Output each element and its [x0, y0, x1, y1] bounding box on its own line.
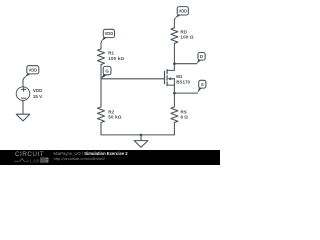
ground (bottom) [134, 141, 148, 148]
plus sign [21, 88, 25, 91]
url text [54, 157, 106, 161]
ground (left) [16, 114, 30, 121]
node D junction [173, 62, 176, 65]
wire gate (node G to M1) [101, 78, 164, 80]
svg-text:BS170: BS170 [176, 80, 190, 85]
svg-text:100 kΩ: 100 kΩ [108, 56, 124, 61]
wire flag to R1 [100, 41, 103, 49]
wire R2 to bottom rail [101, 123, 174, 135]
transistor M1 source stub [167, 84, 174, 86]
resistor RS [171, 107, 178, 123]
transistor M1 body/source vertical [173, 79, 175, 107]
voltage source V1 circle [16, 87, 30, 101]
node S junction [173, 92, 176, 95]
footer bar [0, 150, 220, 165]
title text [54, 152, 128, 157]
wire RD to drain stub [167, 43, 174, 70]
voltage source V1 VDD flag [25, 66, 39, 78]
ground stem [140, 135, 142, 141]
svg-text:VDD: VDD [178, 9, 187, 14]
wire flag to RD [173, 18, 176, 28]
resistor R1 [98, 49, 105, 65]
svg-text:G: G [105, 68, 109, 73]
VDD flag (drain) [175, 7, 188, 19]
node S flag [197, 80, 206, 93]
minus sign [21, 97, 25, 99]
svg-text:100 Ω: 100 Ω [180, 35, 193, 40]
wire flag to source [23, 77, 25, 87]
transistor M1 body arrow [171, 78, 175, 80]
svg-text:VDD: VDD [28, 67, 37, 72]
transistor M1 gate bar [164, 71, 166, 83]
resistor RD [171, 28, 178, 44]
ground junction [140, 134, 143, 137]
VDD flag (divider) [101, 29, 114, 41]
svg-text:15 V: 15 V [33, 94, 42, 99]
node D wire [174, 63, 197, 65]
wire node G to R2 [100, 79, 102, 107]
node D flag [197, 53, 205, 64]
svg-text:M1: M1 [176, 74, 183, 79]
wire RS to bottom rail [173, 123, 175, 135]
CircuitLab logo wave + LAB [13, 157, 51, 164]
node G flag [101, 66, 111, 78]
node S wire [174, 92, 197, 94]
svg-text:D: D [200, 54, 203, 59]
transistor M1 channel segments [166, 70, 168, 86]
svg-text:VDD: VDD [105, 31, 114, 36]
svg-text:S: S [201, 82, 204, 87]
wire source to ground [22, 100, 24, 114]
wire R1 to node G [100, 65, 102, 79]
svg-text:VDD: VDD [33, 88, 43, 93]
svg-text:50 kΩ: 50 kΩ [108, 115, 121, 120]
svg-text:LAB: LAB [30, 159, 40, 164]
resistor R2 [98, 107, 105, 123]
svg-text:RD: RD [180, 29, 187, 34]
svg-text:6 Ω: 6 Ω [181, 115, 189, 120]
CircuitLab logo CIRCUIT [15, 152, 44, 158]
